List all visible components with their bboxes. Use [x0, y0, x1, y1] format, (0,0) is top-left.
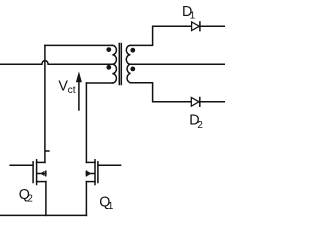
- stub small tick right of Q2 drain wire: [46, 150, 49, 152]
- wire Q2 drain vertical: [44, 45, 46, 162]
- wire center-tap from left edge with hop over Q2 drain line: [0, 61, 112, 65]
- svg-text:2: 2: [27, 194, 32, 205]
- node Vct arrow: [76, 71, 82, 110]
- transistor Q1 body tick: [85, 171, 87, 176]
- svg-text:1: 1: [190, 10, 195, 21]
- diode D1: [192, 22, 200, 31]
- label Q2: [19, 187, 33, 205]
- diode D2: [191, 98, 200, 107]
- transistor Q1 gate wire: [98, 164, 121, 166]
- transistor Q2 channel bar: [36, 160, 38, 185]
- transistor Q1 source stub: [86, 181, 95, 183]
- wire ground rail bottom: [0, 214, 86, 216]
- transistor Q2 body arrow: [40, 171, 44, 176]
- label D1: [182, 4, 195, 22]
- transformer core: [119, 44, 121, 85]
- wire Q1 source vertical: [85, 182, 87, 216]
- label Q1: [99, 195, 113, 213]
- node Vct label: [58, 78, 75, 96]
- svg-text:2: 2: [197, 120, 202, 131]
- wire top-left horizontal to primary top: [45, 44, 112, 46]
- transistor Q2 gate wire: [10, 164, 33, 166]
- transformer secondary bottom winding: [127, 64, 130, 83]
- transistor Q2 body stub: [37, 173, 46, 175]
- transistor Q1 channel bar: [94, 160, 96, 185]
- label D2: [189, 112, 203, 131]
- svg-text:1: 1: [108, 201, 113, 212]
- transformer secondary top winding: [126, 45, 130, 64]
- polarity dot primary top: [106, 47, 111, 52]
- transistor Q2 body tick: [45, 171, 47, 176]
- wire Q1 drain vertical: [85, 83, 87, 162]
- wire primary bottom to Q1: [86, 82, 112, 84]
- transistor Q1 drain stub: [86, 161, 95, 163]
- wire secondary top to D1: [130, 26, 225, 45]
- wire secondary bottom to D2: [130, 83, 225, 102]
- polarity dot secondary bottom: [130, 67, 135, 72]
- transformer primary top winding: [112, 45, 116, 64]
- wire secondary center to right edge: [130, 63, 225, 65]
- polarity dot primary bottom: [106, 65, 111, 70]
- transistor Q1 gate bar: [97, 162, 99, 183]
- polarity dot secondary top: [130, 48, 135, 53]
- transistor Q1 body stub: [86, 173, 94, 175]
- svg-text:ct: ct: [68, 85, 76, 96]
- transistor Q2 drain stub: [37, 161, 45, 163]
- transistor Q2 source stub: [37, 181, 46, 183]
- transistor Q2 gate bar: [32, 162, 34, 183]
- wire Q2 source vertical: [45, 182, 47, 216]
- transformer primary bottom winding: [112, 64, 116, 83]
- transistor Q1 body arrow: [87, 171, 91, 176]
